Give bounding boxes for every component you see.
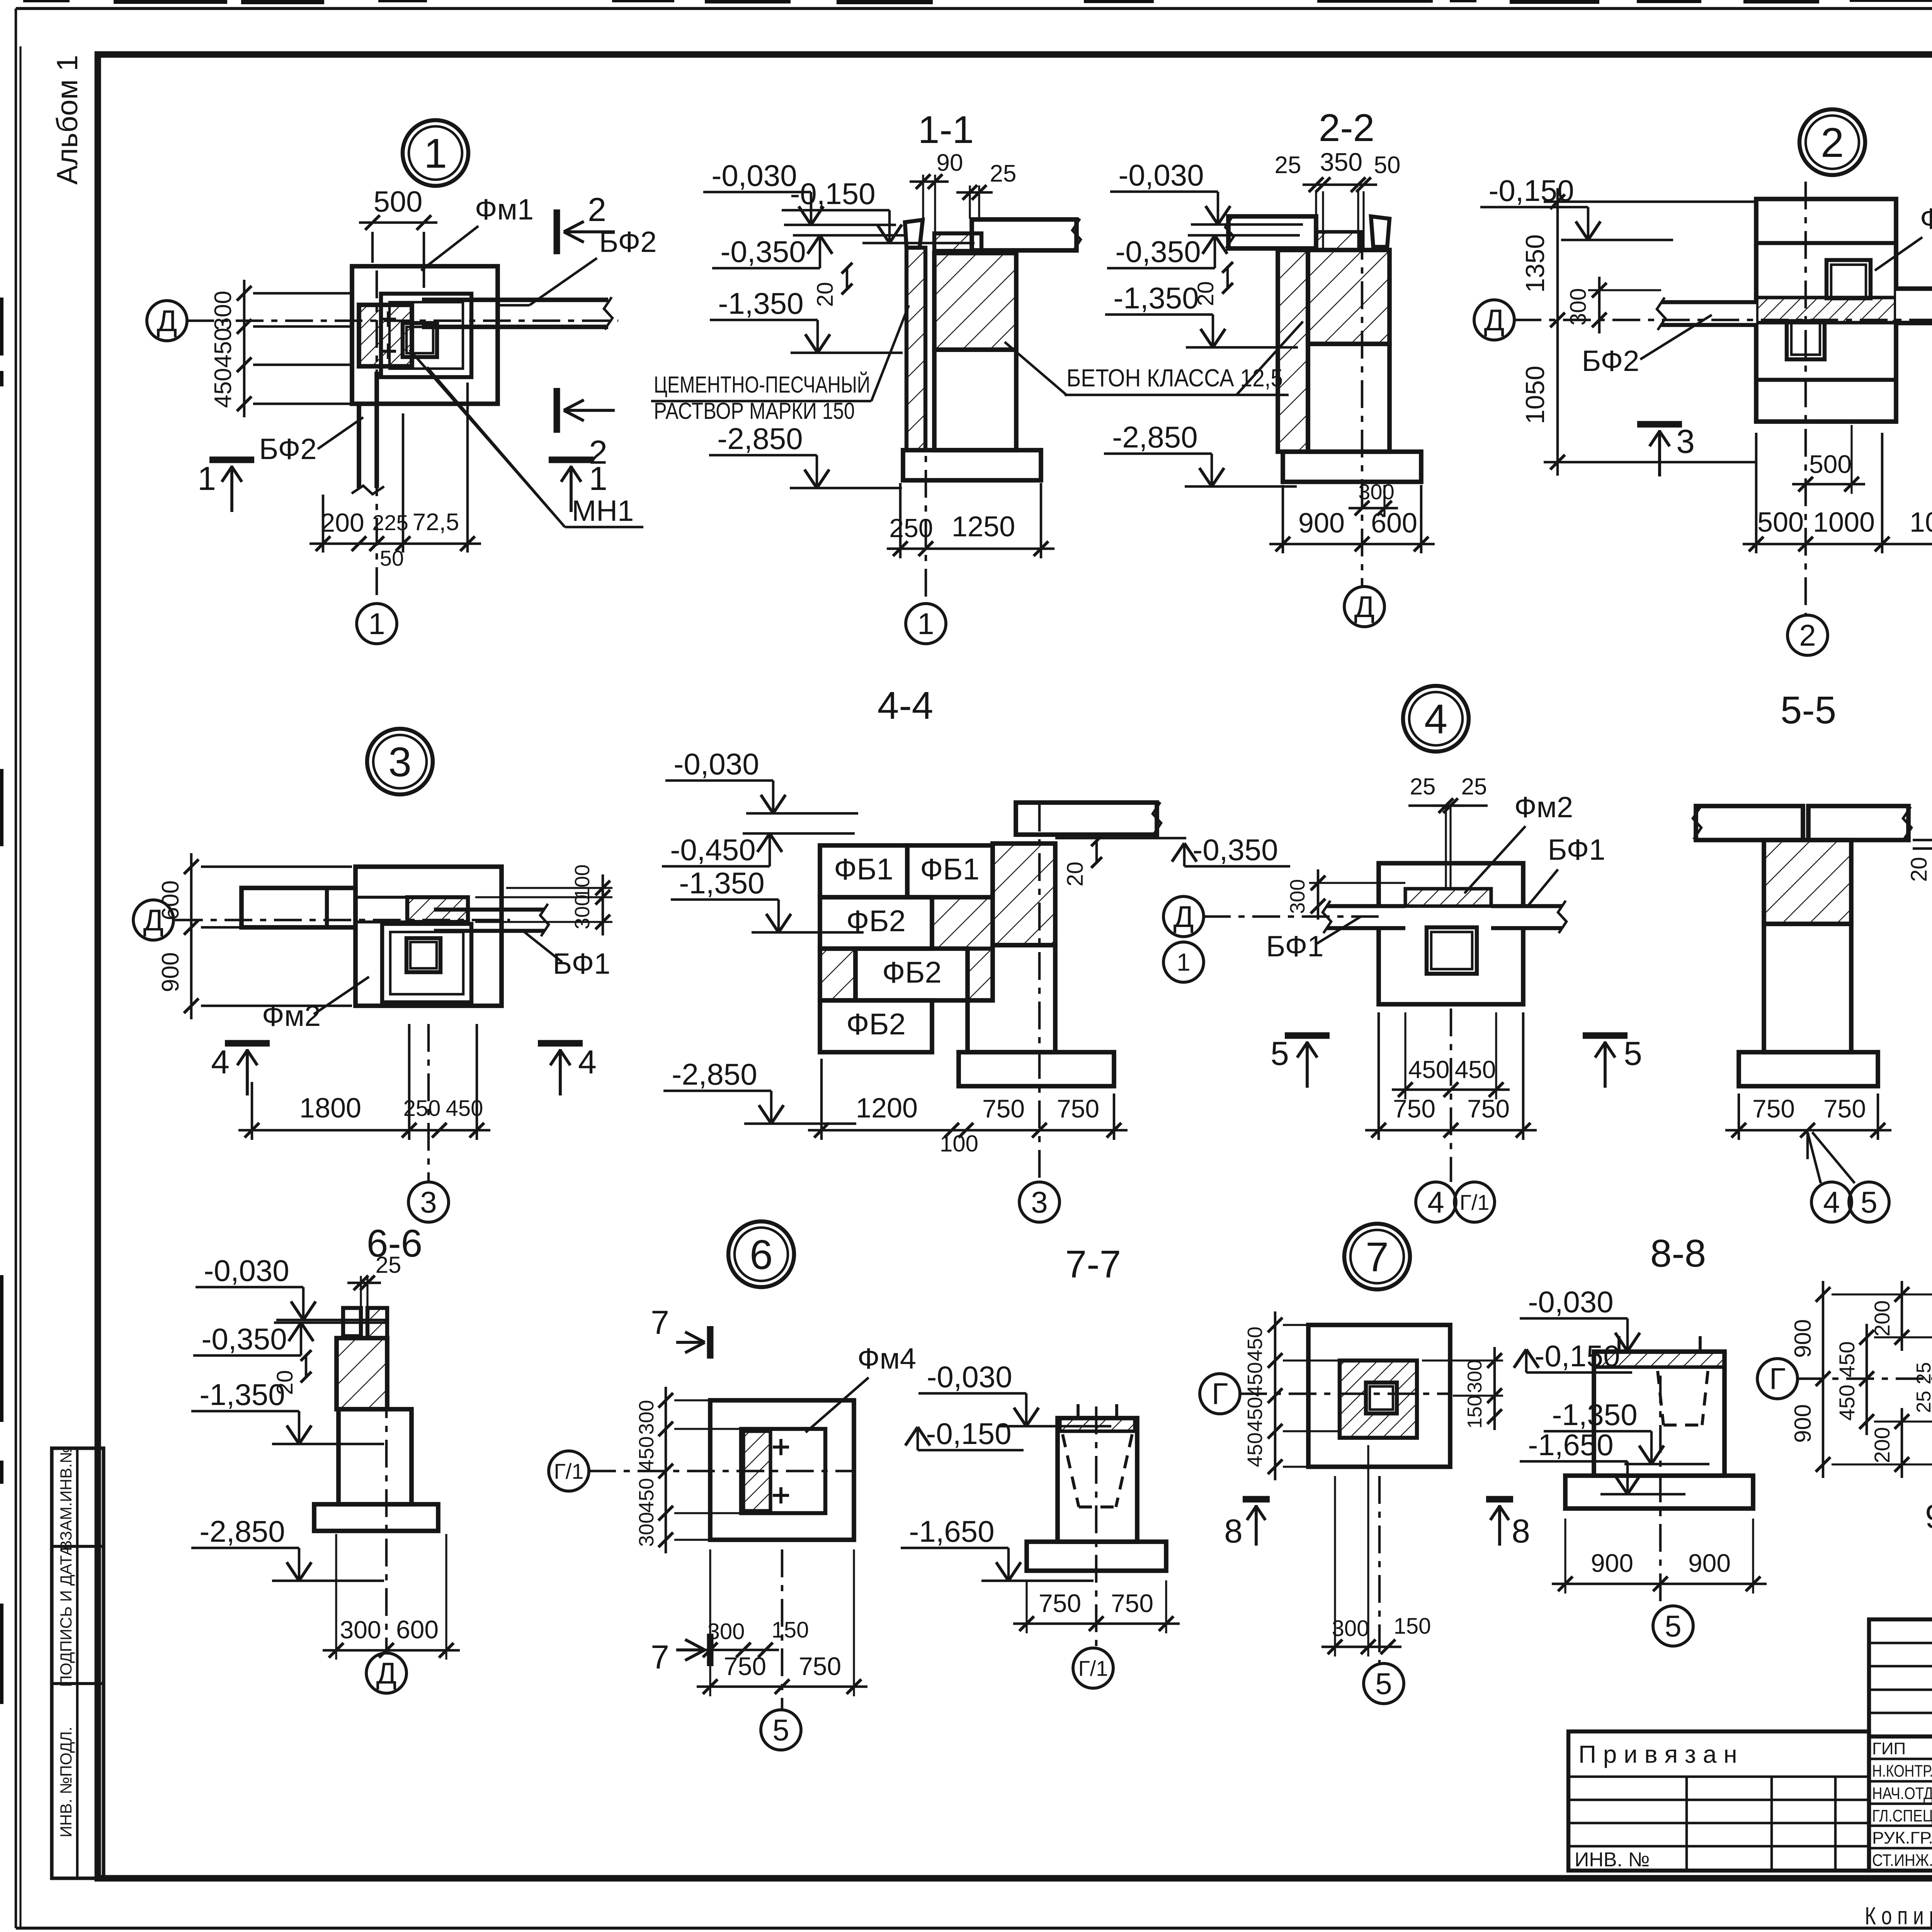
svg-text:100: 100	[940, 1131, 978, 1156]
svg-text:1800: 1800	[299, 1093, 361, 1124]
svg-text:-0,150: -0,150	[790, 177, 875, 211]
svg-text:20: 20	[1906, 857, 1932, 882]
svg-text:300: 300	[635, 1400, 658, 1435]
svg-text:450: 450	[1408, 1056, 1450, 1083]
svg-text:50: 50	[1374, 152, 1401, 179]
svg-text:-0,030: -0,030	[711, 158, 797, 192]
svg-text:25: 25	[1913, 1362, 1932, 1384]
svg-text:1200: 1200	[856, 1093, 918, 1124]
svg-text:450: 450	[635, 1478, 658, 1513]
svg-text:7: 7	[1366, 1233, 1389, 1280]
svg-text:450: 450	[1835, 1384, 1859, 1420]
svg-text:Фм1: Фм1	[475, 193, 534, 226]
svg-text:-2,850: -2,850	[672, 1057, 757, 1091]
svg-text:Г: Г	[1769, 1362, 1786, 1396]
svg-text:450: 450	[210, 328, 236, 367]
svg-text:1: 1	[589, 460, 607, 497]
svg-text:-1,650: -1,650	[909, 1514, 994, 1548]
svg-text:1: 1	[424, 130, 447, 177]
svg-text:1-1: 1-1	[918, 108, 974, 151]
svg-text:-0,030: -0,030	[927, 1360, 1012, 1394]
svg-text:5: 5	[1665, 1609, 1681, 1643]
svg-text:450: 450	[1243, 1432, 1267, 1467]
svg-text:750: 750	[1057, 1094, 1099, 1123]
svg-text:-0,450: -0,450	[670, 833, 755, 867]
svg-text:4-4: 4-4	[878, 684, 934, 727]
svg-text:1350: 1350	[1520, 234, 1550, 293]
svg-text:300: 300	[635, 1512, 658, 1547]
svg-text:750: 750	[1393, 1094, 1435, 1123]
svg-text:Фм4: Фм4	[857, 1342, 916, 1375]
svg-text:4: 4	[1427, 1185, 1444, 1219]
svg-text:-0,350: -0,350	[1115, 235, 1201, 269]
svg-text:200: 200	[1870, 1300, 1894, 1336]
svg-text:РУК.ГР.: РУК.ГР.	[1872, 1828, 1932, 1847]
svg-text:-2,850: -2,850	[199, 1514, 285, 1548]
svg-text:20: 20	[1063, 862, 1088, 887]
svg-text:-1,350: -1,350	[718, 286, 803, 320]
svg-text:7: 7	[651, 1639, 669, 1676]
svg-text:500: 500	[374, 185, 423, 218]
svg-text:Г/1: Г/1	[1078, 1656, 1108, 1680]
svg-text:-0,350: -0,350	[201, 1322, 287, 1356]
svg-text:25: 25	[1461, 774, 1487, 799]
svg-text:25: 25	[1410, 774, 1436, 799]
svg-text:БФ1: БФ1	[1266, 930, 1323, 963]
svg-text:450: 450	[1835, 1341, 1859, 1377]
svg-text:25: 25	[990, 160, 1017, 187]
svg-text:2-2: 2-2	[1319, 106, 1375, 150]
svg-text:-1,350: -1,350	[199, 1378, 285, 1412]
svg-text:ФБ2: ФБ2	[846, 904, 906, 938]
svg-text:300: 300	[707, 1619, 745, 1644]
svg-text:Альбом 1: Альбом 1	[51, 55, 84, 185]
svg-text:900: 900	[1790, 1319, 1816, 1358]
svg-text:-0,030: -0,030	[673, 747, 759, 781]
svg-text:-0,350: -0,350	[720, 235, 806, 269]
svg-text:4: 4	[211, 1044, 230, 1081]
svg-text:900: 900	[1591, 1549, 1633, 1577]
svg-text:750: 750	[1111, 1589, 1153, 1617]
svg-text:200: 200	[1870, 1427, 1894, 1463]
svg-text:300: 300	[1332, 1616, 1369, 1641]
svg-text:600: 600	[1371, 508, 1417, 539]
svg-text:300: 300	[1464, 1360, 1486, 1393]
svg-text:25: 25	[376, 1252, 401, 1278]
svg-text:-1,350: -1,350	[679, 866, 764, 900]
svg-text:3: 3	[388, 738, 412, 785]
svg-text:-1,350: -1,350	[1113, 281, 1199, 315]
svg-text:4: 4	[1424, 696, 1447, 742]
svg-text:750: 750	[1752, 1094, 1795, 1123]
svg-text:СТ.ИНЖ.: СТ.ИНЖ.	[1872, 1851, 1932, 1870]
svg-text:5: 5	[772, 1713, 789, 1747]
svg-text:4: 4	[578, 1044, 597, 1081]
svg-text:БФ2: БФ2	[259, 433, 316, 466]
svg-text:250: 250	[889, 514, 933, 543]
svg-text:300: 300	[1358, 480, 1394, 504]
svg-text:Фм3: Фм3	[1920, 202, 1932, 235]
svg-text:750: 750	[799, 1652, 841, 1680]
svg-text:1: 1	[917, 607, 934, 641]
svg-text:8: 8	[1224, 1513, 1243, 1550]
svg-text:4: 4	[1823, 1185, 1840, 1219]
svg-text:МН1: МН1	[572, 495, 634, 527]
svg-text:25: 25	[1913, 1391, 1932, 1413]
svg-text:К о п и р о в а л: К о п и р о в а л	[1865, 1902, 1932, 1930]
svg-text:150: 150	[772, 1617, 809, 1643]
svg-text:50: 50	[380, 546, 404, 570]
svg-text:150: 150	[1394, 1614, 1431, 1639]
svg-text:1050: 1050	[1520, 366, 1550, 424]
svg-text:-1,650: -1,650	[1528, 1428, 1613, 1462]
svg-text:20: 20	[813, 282, 838, 307]
svg-text:9: 9	[1925, 1498, 1932, 1535]
svg-text:ВЗАМ.ИНВ.№: ВЗАМ.ИНВ.№	[57, 1446, 75, 1551]
svg-text:ИНВ. №: ИНВ. №	[1575, 1849, 1650, 1871]
svg-text:300: 300	[571, 895, 594, 929]
svg-text:1: 1	[1177, 948, 1190, 976]
svg-text:600: 600	[157, 880, 184, 920]
svg-text:ФБ2: ФБ2	[882, 955, 942, 989]
svg-text:БФ2: БФ2	[1582, 345, 1639, 378]
svg-text:750: 750	[1467, 1094, 1510, 1123]
svg-text:3: 3	[1031, 1185, 1048, 1219]
svg-text:5: 5	[1624, 1035, 1642, 1072]
svg-text:72,5: 72,5	[413, 509, 459, 536]
svg-text:ФБ1: ФБ1	[920, 852, 980, 886]
svg-text:2: 2	[1821, 119, 1844, 166]
svg-text:ЦЕМЕНТНО-ПЕСЧАНЫЙ: ЦЕМЕНТНО-ПЕСЧАНЫЙ	[654, 372, 870, 398]
svg-text:Н.КОНТР.: Н.КОНТР.	[1872, 1762, 1932, 1781]
svg-text:Д: Д	[1173, 900, 1194, 934]
svg-text:2: 2	[1799, 618, 1816, 652]
svg-text:750: 750	[1039, 1589, 1081, 1617]
svg-text:ФБ1: ФБ1	[834, 852, 893, 886]
svg-text:450: 450	[1243, 1362, 1267, 1397]
svg-text:8: 8	[1512, 1513, 1530, 1550]
svg-text:Фм2: Фм2	[1514, 791, 1573, 824]
svg-text:5-5: 5-5	[1781, 689, 1837, 732]
svg-text:750: 750	[982, 1094, 1025, 1123]
svg-text:Г/1: Г/1	[554, 1459, 583, 1483]
svg-text:1: 1	[368, 607, 385, 641]
svg-text:8-8: 8-8	[1650, 1232, 1706, 1275]
svg-text:900: 900	[1298, 508, 1345, 539]
svg-text:-0,350: -0,350	[1192, 833, 1278, 867]
svg-text:350: 350	[1320, 148, 1362, 176]
svg-text:7: 7	[651, 1304, 669, 1341]
svg-text:-2,850: -2,850	[717, 422, 803, 456]
svg-text:150: 150	[1464, 1395, 1486, 1429]
svg-text:2: 2	[588, 191, 606, 228]
svg-text:1: 1	[197, 460, 216, 497]
svg-text:3: 3	[420, 1185, 437, 1219]
svg-text:НАЧ.ОТД: НАЧ.ОТД	[1872, 1784, 1932, 1803]
svg-text:Г/1: Г/1	[1459, 1190, 1489, 1214]
svg-text:-0,150: -0,150	[926, 1417, 1011, 1451]
svg-text:БФ1: БФ1	[553, 947, 610, 980]
svg-text:300: 300	[1566, 288, 1591, 326]
svg-text:1250: 1250	[952, 510, 1015, 543]
svg-text:5: 5	[1375, 1667, 1392, 1701]
svg-text:900: 900	[157, 952, 184, 992]
svg-text:450: 450	[1455, 1056, 1496, 1083]
svg-text:300: 300	[340, 1616, 381, 1644]
svg-text:5: 5	[1270, 1035, 1289, 1072]
svg-text:750: 750	[724, 1652, 766, 1680]
svg-text:6: 6	[750, 1231, 773, 1278]
svg-text:П р и в я з а н: П р и в я з а н	[1578, 1740, 1737, 1768]
svg-text:ИНВ. №ПОДЛ.: ИНВ. №ПОДЛ.	[57, 1727, 75, 1838]
svg-text:450: 450	[210, 368, 236, 408]
svg-text:300: 300	[210, 291, 236, 330]
svg-text:600: 600	[396, 1615, 439, 1644]
svg-text:-0,030: -0,030	[204, 1253, 289, 1287]
svg-text:3: 3	[1676, 423, 1695, 460]
svg-text:-2,850: -2,850	[1112, 420, 1197, 454]
svg-text:200: 200	[320, 508, 364, 537]
svg-text:1040: 1040	[1910, 507, 1932, 538]
svg-text:-0,030: -0,030	[1118, 158, 1204, 192]
svg-text:Д: Д	[1484, 303, 1505, 337]
svg-text:7-7: 7-7	[1065, 1243, 1121, 1286]
svg-text:-0,030: -0,030	[1528, 1285, 1613, 1319]
svg-text:300: 300	[1286, 879, 1309, 914]
svg-text:Д: Д	[1354, 590, 1375, 624]
svg-text:Д: Д	[157, 304, 177, 338]
svg-text:450: 450	[1243, 1397, 1267, 1432]
svg-text:500: 500	[1809, 450, 1852, 478]
svg-text:ПОДПИСЬ И ДАТА: ПОДПИСЬ И ДАТА	[57, 1545, 75, 1687]
svg-text:900: 900	[1790, 1404, 1816, 1443]
svg-text:ГИП: ГИП	[1872, 1739, 1906, 1758]
svg-text:750: 750	[1823, 1094, 1866, 1123]
svg-text:500: 500	[1757, 507, 1804, 538]
svg-text:450: 450	[635, 1436, 658, 1471]
svg-text:900: 900	[1688, 1549, 1731, 1577]
svg-text:25: 25	[1275, 152, 1301, 179]
svg-text:90: 90	[937, 150, 963, 176]
svg-text:БФ1: БФ1	[1548, 833, 1605, 866]
svg-text:ФБ2: ФБ2	[846, 1007, 906, 1041]
svg-text:100: 100	[571, 864, 594, 899]
svg-text:Д: Д	[376, 1656, 397, 1690]
svg-text:Г: Г	[1212, 1377, 1228, 1411]
svg-text:ГЛ.СПЕЦ: ГЛ.СПЕЦ	[1872, 1806, 1932, 1825]
svg-text:1000: 1000	[1813, 507, 1875, 538]
svg-text:5: 5	[1861, 1185, 1877, 1219]
svg-text:450: 450	[1243, 1327, 1267, 1361]
